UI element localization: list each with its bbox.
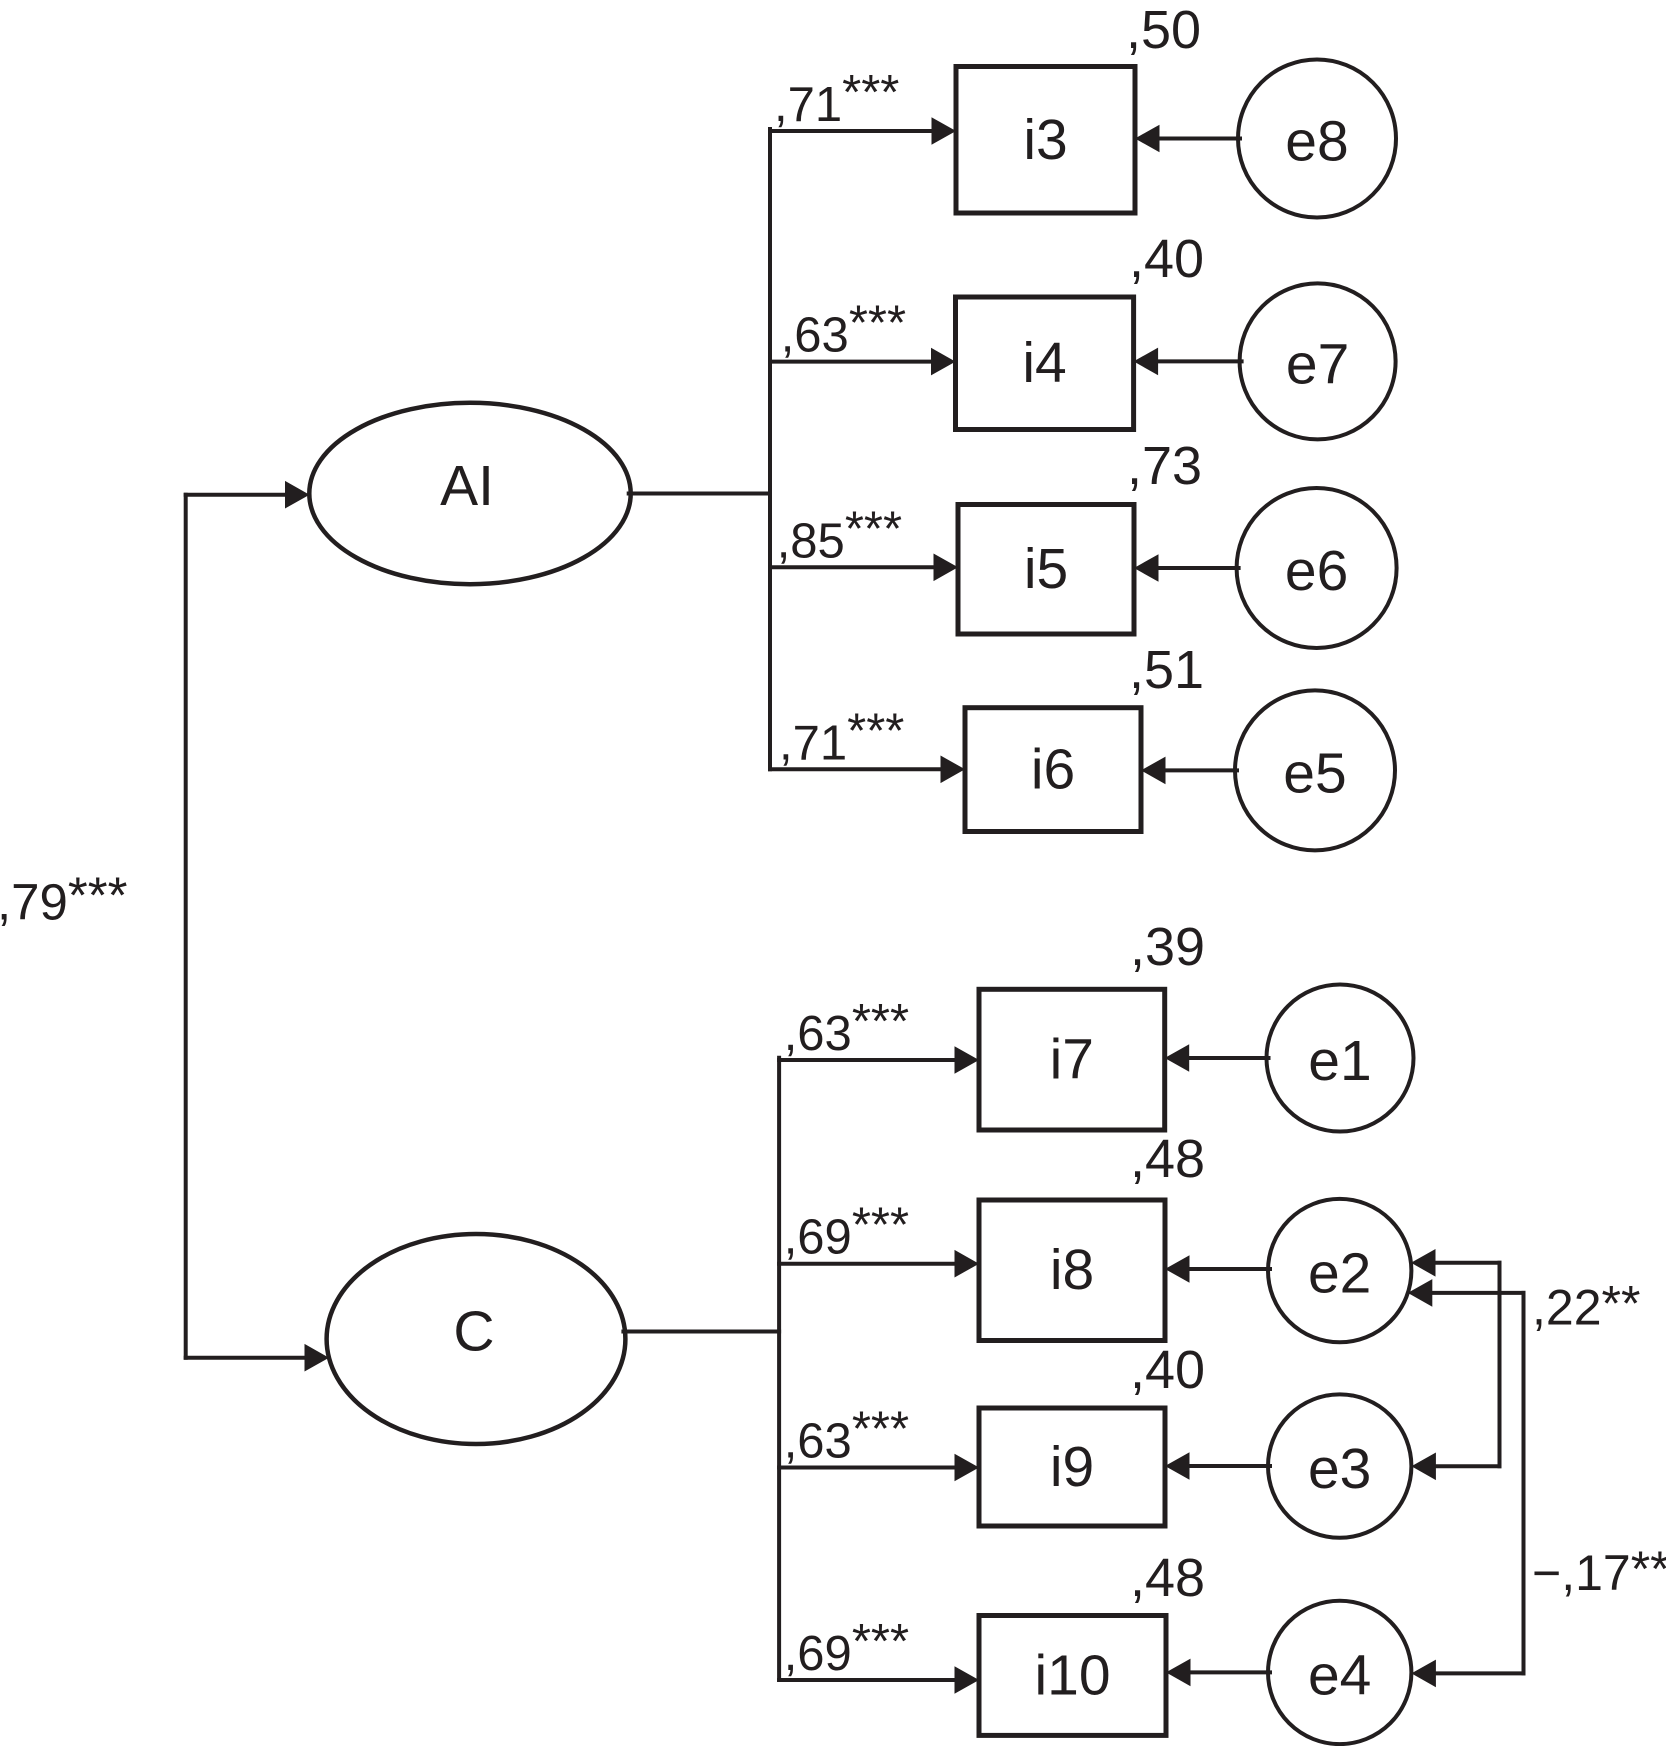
error term e3 (circle) [1268,1394,1411,1537]
svg-text:e2: e2 [1308,1242,1371,1306]
svg-text:i8: i8 [1050,1238,1094,1302]
svg-text:,39: ,39 [1130,917,1205,977]
svg-text:i6: i6 [1031,738,1075,802]
svg-text:,48: ,48 [1130,1548,1205,1608]
observed variable i6 (rectangle) [965,708,1141,832]
squared multiple correlation ,50 above i3 [1126,0,1201,60]
covariance label ,79*** [0,866,128,930]
squared multiple correlation ,40 above i9 [1130,1340,1205,1400]
covariance e2 <-> e3 wires [1425,1263,1500,1467]
covariance arrow into C [186,1344,329,1372]
covariance arrow into e3 [1411,1453,1436,1481]
svg-text:,69***: ,69*** [784,1199,909,1265]
observed variable i4 (rectangle) [956,297,1134,430]
svg-text:e5: e5 [1283,741,1346,805]
svg-text:e7: e7 [1286,332,1349,396]
svg-text:e6: e6 [1285,539,1348,603]
svg-text:C: C [453,1300,494,1364]
svg-text:,85***: ,85*** [777,502,902,568]
svg-text:,40: ,40 [1129,229,1204,289]
wire AI spine vertical [768,129,772,769]
svg-text:AI: AI [440,454,494,518]
path arrow AI -> i6 loading ,71*** [770,704,965,783]
svg-text:e3: e3 [1308,1437,1371,1501]
covariance arrow into e2 (from e3) [1411,1249,1436,1277]
error term e2 (circle) [1268,1199,1411,1342]
svg-text:,63***: ,63*** [781,297,906,363]
path arrow e1 -> i7 [1165,1044,1269,1072]
path arrow e7 -> i4 [1134,348,1242,376]
svg-text:e1: e1 [1308,1029,1371,1093]
svg-text:,71***: ,71*** [774,66,899,132]
error term e8 (circle) [1238,60,1396,218]
svg-text:i3: i3 [1023,108,1067,172]
svg-text:i4: i4 [1022,331,1066,395]
svg-text:,63***: ,63*** [784,995,909,1061]
covariance arrow into AI [186,481,310,509]
covariance AI <-> C vertical wire [184,495,188,1358]
covariance e2 <-> e4 wires [1422,1293,1524,1674]
svg-text:,50: ,50 [1126,0,1201,60]
svg-text:i7: i7 [1050,1028,1094,1092]
path arrow C -> i8 loading ,69*** [779,1199,979,1278]
path arrow AI -> i3 loading ,71*** [770,66,956,145]
latent factor C (ellipse) [327,1234,626,1444]
latent factor AI (ellipse) [309,403,630,584]
squared multiple correlation ,40 above i4 [1129,229,1204,289]
wire C to spine [623,1330,779,1334]
observed variable i5 (rectangle) [958,505,1134,635]
svg-text:e8: e8 [1285,110,1348,174]
observed variable i9 (rectangle) [979,1408,1165,1526]
covariance arrow into e2 (from e4) [1408,1279,1433,1307]
path arrow C -> i9 loading ,63*** [779,1403,979,1482]
svg-text:−,17**: −,17** [1532,1541,1666,1601]
path arrow AI -> i5 loading ,85*** [770,502,958,581]
wire C spine vertical [777,1058,781,1680]
error term e6 (circle) [1237,488,1397,648]
path arrow e4 -> i10 [1166,1659,1270,1687]
svg-text:,48: ,48 [1130,1129,1205,1189]
svg-text:,22**: ,22** [1532,1275,1640,1335]
error term e1 (circle) [1267,985,1414,1132]
svg-text:,63***: ,63*** [784,1403,909,1469]
path arrow e8 -> i3 [1135,125,1240,153]
svg-text:i9: i9 [1050,1435,1094,1499]
path arrow AI -> i4 loading ,63*** [770,297,956,376]
squared multiple correlation ,73 above i5 [1127,436,1202,496]
error term e5 (circle) [1235,690,1395,850]
covariance label −,17** [1532,1541,1666,1601]
wire AI to spine [629,492,770,496]
svg-text:e4: e4 [1308,1643,1371,1707]
observed variable i3 (rectangle) [956,67,1135,214]
svg-text:,73: ,73 [1127,436,1202,496]
svg-text:i5: i5 [1024,537,1068,601]
squared multiple correlation ,51 above i6 [1129,640,1204,700]
squared multiple correlation ,39 above i7 [1130,917,1205,977]
error term e4 (circle) [1268,1601,1411,1744]
observed variable i8 (rectangle) [979,1200,1165,1341]
path arrow e3 -> i9 [1165,1452,1270,1480]
svg-text:i10: i10 [1034,1644,1110,1708]
observed variable i10 (rectangle) [979,1616,1166,1736]
squared multiple correlation ,48 above i8 [1130,1129,1205,1189]
svg-text:,79***: ,79*** [0,866,128,930]
path arrow e5 -> i6 [1141,757,1237,785]
path arrow e2 -> i8 [1165,1255,1270,1283]
squared multiple correlation ,48 above i10 [1130,1548,1205,1608]
observed variable i7 (rectangle) [979,989,1165,1130]
svg-text:,51: ,51 [1129,640,1204,700]
covariance arrow into e4 [1411,1660,1436,1688]
error term e7 (circle) [1240,283,1396,439]
path arrow C -> i7 loading ,63*** [779,995,979,1074]
svg-text:,40: ,40 [1130,1340,1205,1400]
covariance label ,22** [1532,1275,1640,1335]
svg-text:,69***: ,69*** [784,1615,909,1681]
svg-text:,71***: ,71*** [779,704,904,770]
path arrow C -> i10 loading ,69*** [779,1615,979,1694]
path arrow e6 -> i5 [1134,554,1239,582]
